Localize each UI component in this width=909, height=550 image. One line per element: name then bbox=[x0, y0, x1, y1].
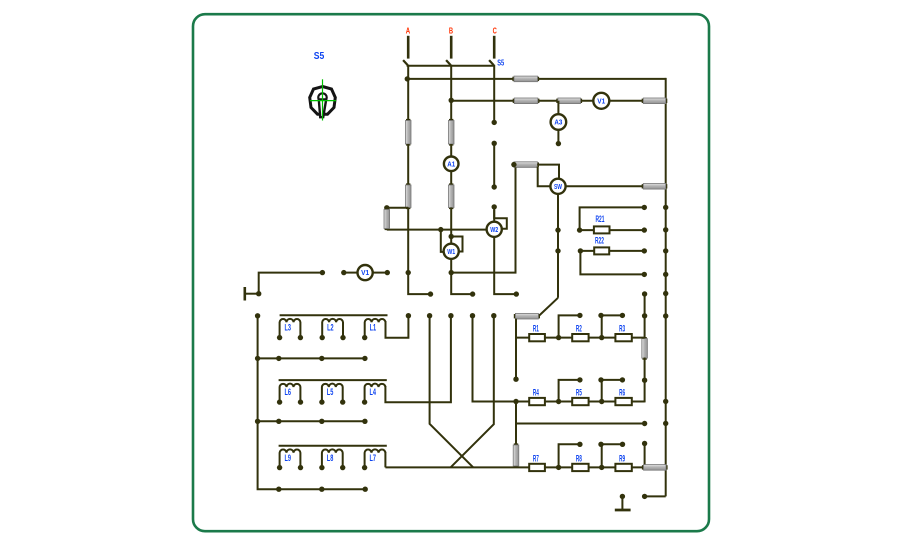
svg-text:R22: R22 bbox=[595, 236, 604, 246]
wire phase B column below A1 bbox=[450, 170, 452, 186]
wire R21 row bbox=[580, 229, 645, 231]
svg-text:L2: L2 bbox=[327, 322, 334, 332]
node W1 left hook bbox=[438, 227, 443, 232]
wire phase C column upper bbox=[493, 65, 495, 123]
node L3 left bbox=[277, 335, 282, 340]
svg-text:R6: R6 bbox=[619, 388, 625, 398]
node bus row1 a bbox=[276, 356, 281, 361]
wire neutral bus row1 bbox=[258, 357, 365, 359]
svg-text:L6: L6 bbox=[285, 387, 292, 397]
svg-text:L4: L4 bbox=[370, 387, 377, 397]
ammeter A1 on phase B bbox=[444, 157, 459, 172]
fuse inner bus R1-R4 bbox=[642, 337, 648, 360]
wire SW feed fuse to SW top bbox=[537, 165, 559, 180]
svg-text:L8: L8 bbox=[327, 453, 334, 463]
switch S5 blade phase C bbox=[489, 60, 494, 65]
node on phase B column y=272.6 bbox=[449, 270, 454, 275]
node outer bus y=274.4 bbox=[663, 272, 668, 277]
fuse phase B column 1 bbox=[448, 119, 454, 146]
phase B input stub bbox=[450, 36, 453, 59]
ammeter A3 bbox=[551, 114, 567, 130]
node phase C segment bottom bbox=[492, 184, 497, 189]
node outer bus y=207.4 bbox=[663, 205, 668, 210]
node L8 left bbox=[319, 465, 324, 470]
node bus row1 b bbox=[319, 356, 324, 361]
core line inductor row 2 bbox=[279, 379, 387, 381]
node R1 jumper 2 left bbox=[598, 313, 603, 318]
node L9 right bbox=[298, 465, 303, 470]
node outer bus y=293.5 bbox=[663, 291, 668, 296]
node outer bus y=316.0 bbox=[663, 313, 668, 318]
node R4 jumper 2 right bbox=[620, 377, 625, 382]
svg-text:R4: R4 bbox=[533, 388, 539, 398]
wire SW bottom column bbox=[557, 194, 559, 298]
node R1-R2 bbox=[556, 335, 561, 340]
wire R1 row jumper 1 bbox=[559, 315, 580, 337]
node R21 hook end bbox=[642, 205, 647, 210]
inductor L3 bbox=[280, 319, 301, 338]
wire below A3 bbox=[557, 130, 559, 144]
svg-text:R8: R8 bbox=[576, 453, 582, 463]
fuse bus2 second bbox=[556, 98, 582, 104]
fuse bus1 bbox=[512, 76, 539, 82]
wire R7 row jumper 2 horizontal bbox=[601, 443, 623, 445]
node small fuse top bbox=[384, 205, 389, 210]
svg-text:S5: S5 bbox=[497, 57, 504, 67]
resistor R2 bbox=[572, 334, 588, 341]
node R7 jumper 2 left bbox=[598, 442, 603, 447]
resistor R21 bbox=[594, 226, 610, 233]
wire R7 row bbox=[385, 466, 644, 468]
node left vertical bus1 bbox=[255, 356, 260, 361]
wire right outer bus vertical bbox=[665, 78, 667, 497]
node inner bus y=315.8 bbox=[642, 313, 647, 318]
node on phase A column y=272.6 bbox=[406, 270, 411, 275]
fuse small vertical left of A bbox=[384, 208, 390, 230]
svg-text:B: B bbox=[449, 26, 453, 36]
node W1 right hook tap bbox=[449, 234, 454, 239]
wire W1 row horizontal y=229.6 bbox=[387, 229, 487, 231]
svg-text:SW: SW bbox=[554, 184, 562, 191]
wire R4 row to R7 row vertical bbox=[515, 402, 517, 447]
node R22 right bbox=[642, 248, 647, 253]
wire left load vertical bbox=[258, 316, 366, 489]
svg-text:R5: R5 bbox=[576, 388, 582, 398]
voltmeter V1 left bbox=[358, 265, 373, 280]
node L6 right bbox=[298, 399, 303, 404]
wire column 5 diagonal to L7 row bbox=[451, 316, 494, 468]
fuse phase B column 2 bbox=[448, 183, 454, 209]
node R1 jumper 1 end bbox=[577, 313, 582, 318]
wire R22 lower hook bbox=[580, 251, 644, 275]
node left wire end bbox=[320, 270, 325, 275]
node outer bus y=250.9 bbox=[663, 248, 668, 253]
node outer bus bottom stub end bbox=[642, 494, 647, 499]
node R22 lower hook end bbox=[642, 272, 647, 277]
inductor L8 bbox=[322, 449, 343, 467]
svg-text:C: C bbox=[493, 26, 497, 36]
node load column x=408.4 bbox=[406, 313, 411, 318]
inductor L1 bbox=[365, 319, 386, 338]
fuse phase A column 1 bbox=[405, 119, 411, 146]
svg-text:L1: L1 bbox=[370, 322, 377, 332]
fuse load phase C branch bbox=[514, 313, 540, 319]
wire R4 row jumper 2 vertical bbox=[601, 380, 603, 402]
svg-text:V1: V1 bbox=[597, 98, 605, 105]
inductor L2 bbox=[322, 319, 343, 338]
resistor R4 bbox=[529, 398, 545, 405]
wire left ground to y=272.6 bbox=[259, 273, 323, 294]
svg-text:L3: L3 bbox=[285, 322, 292, 332]
switch S5 gang bar bbox=[407, 65, 495, 67]
ground left bbox=[245, 287, 259, 301]
wire SW voltage loop bbox=[538, 167, 552, 187]
wattmeter W1 bbox=[444, 244, 459, 259]
node SW column R22 level bbox=[555, 248, 560, 253]
border frame bbox=[193, 14, 709, 531]
node SW feed fuse left bbox=[511, 162, 516, 167]
resistor R1 bbox=[529, 334, 545, 341]
wire R7 row jumper 2 vertical bbox=[601, 444, 603, 467]
node bus row2 b bbox=[319, 419, 324, 424]
fuse phase A column 2 bbox=[405, 183, 411, 209]
resistor R8 bbox=[572, 464, 588, 471]
wire L7 right leg to R7 row line bbox=[384, 452, 386, 468]
fuse R7 row right bbox=[642, 465, 668, 471]
node L9 left bbox=[277, 465, 282, 470]
node phase A output bbox=[428, 291, 433, 296]
node R4-R5 bbox=[556, 399, 561, 404]
inductor L6 bbox=[280, 384, 301, 403]
node phase C at wattmeter W2 bbox=[492, 204, 497, 209]
node R4 jumper 2 left bbox=[598, 377, 603, 382]
wire W1 right hook bbox=[451, 237, 462, 252]
svg-text:W2: W2 bbox=[490, 227, 498, 234]
node phase B output bbox=[470, 291, 475, 296]
node below A3 bbox=[556, 141, 561, 146]
wire phase C column middle segment bbox=[493, 143, 495, 187]
toggle switch S5 icon bbox=[310, 87, 336, 118]
wire column 2 diagonal to R7 row bbox=[430, 316, 473, 468]
wire R4 row jumper 2 horizontal bbox=[601, 379, 623, 381]
node inner bus y=380.2 bbox=[642, 378, 647, 383]
node SW column R21 level bbox=[555, 227, 560, 232]
inductor L5 bbox=[322, 384, 343, 403]
svg-text:R1: R1 bbox=[533, 324, 539, 334]
svg-text:A1: A1 bbox=[447, 161, 455, 168]
phase C input stub bbox=[493, 36, 496, 59]
phase A input stub bbox=[407, 36, 410, 59]
node load column x=429.6 bbox=[427, 313, 432, 318]
node inner bus y=443.5 bbox=[642, 441, 647, 446]
node left vertical bus2 bbox=[255, 419, 260, 424]
node phase C segment top bbox=[492, 141, 497, 146]
wire phase A column middle bbox=[407, 144, 409, 186]
wire W1 left hook bbox=[441, 230, 445, 252]
node L1 left bbox=[362, 335, 367, 340]
node R22 left bbox=[578, 248, 583, 253]
wire into V1 left bbox=[344, 272, 358, 274]
node bus row3 end bbox=[363, 487, 368, 492]
wire phase B column to ammeter A1 bbox=[450, 144, 452, 157]
node L8 right bbox=[340, 465, 345, 470]
node L2 left bbox=[320, 335, 325, 340]
wire outer bus bottom stub bbox=[645, 495, 666, 497]
node R21 right bbox=[642, 227, 647, 232]
fuse SW feed bbox=[512, 162, 539, 168]
core line inductor row 1 bbox=[280, 314, 388, 316]
resistor R22 bbox=[594, 247, 609, 254]
wire phase B column below W1 with elbow bbox=[451, 258, 472, 294]
node L5 right bbox=[340, 399, 345, 404]
node load column x=472.5 bbox=[470, 313, 475, 318]
wire W2 right hook bbox=[494, 210, 507, 229]
node bus row2 a bbox=[276, 419, 281, 424]
inductor L9 bbox=[280, 449, 301, 467]
node voltmeter V1 left terminal bbox=[341, 270, 346, 275]
node inner bus top bbox=[642, 291, 647, 296]
wire SW column diagonal to load fuse bbox=[539, 298, 558, 316]
wire R1 row bbox=[516, 337, 645, 339]
wire L1 right leg hook to column 1 bbox=[386, 316, 409, 338]
wire R7 row jumper 1 bbox=[559, 444, 580, 467]
svg-text:S5: S5 bbox=[314, 51, 325, 62]
svg-text:L9: L9 bbox=[285, 453, 292, 463]
node outer bus y=423.4 bbox=[663, 421, 668, 426]
node bus2 at phase B bbox=[449, 98, 454, 103]
resistor R3 bbox=[615, 334, 631, 341]
node R7 jumper 1 end bbox=[577, 442, 582, 447]
node R8-R9 bbox=[599, 465, 604, 470]
node bus row3 b bbox=[319, 487, 324, 492]
node left ground bbox=[256, 291, 261, 296]
wire L4 right leg hook to column 3 bbox=[385, 316, 451, 403]
node phase C output bbox=[514, 291, 519, 296]
wire inner bus fuse to R4 row bbox=[644, 358, 646, 403]
wire R4 row bbox=[473, 401, 645, 403]
node R7 jumper 2 right bbox=[620, 442, 625, 447]
node outer bus y=401.4 bbox=[663, 399, 668, 404]
node R5-R6 bbox=[599, 399, 604, 404]
node R7-R8 bbox=[556, 465, 561, 470]
wire phase A column upper bbox=[407, 65, 409, 122]
resistor R9 bbox=[615, 464, 631, 471]
wire stub phase A to small fuse bbox=[387, 207, 408, 209]
wire inner bus upper segment bbox=[644, 294, 646, 338]
node L5 left bbox=[319, 399, 324, 404]
node L2 right bbox=[340, 335, 345, 340]
wire phase C below W2 with elbow bbox=[494, 236, 516, 294]
toggle switch crosshair bbox=[310, 79, 336, 120]
node end below R1 row bbox=[513, 377, 518, 382]
fuse bus2 first bbox=[513, 98, 540, 104]
inductor L4 bbox=[365, 384, 386, 403]
wire R1 row jumper 2 horizontal bbox=[601, 314, 623, 316]
wire column 4 to R4 row bbox=[473, 316, 481, 402]
wire out of V1 left bbox=[373, 272, 388, 274]
svg-text:R7: R7 bbox=[533, 453, 539, 463]
svg-text:L5: L5 bbox=[327, 387, 334, 397]
node V1 right terminal bbox=[385, 270, 390, 275]
switch S5 blade phase A bbox=[403, 60, 408, 65]
svg-text:V1: V1 bbox=[361, 270, 369, 277]
node bus row3 a bbox=[276, 487, 281, 492]
wattmeter SW bbox=[550, 179, 565, 194]
node R21 left bbox=[577, 227, 582, 232]
node bus row1 end bbox=[362, 356, 367, 361]
wire ammeter A3 branch bbox=[557, 101, 559, 115]
wire phase A column lower with elbow bbox=[408, 208, 430, 295]
node L3 right bbox=[298, 335, 303, 340]
fuse above R7 row bbox=[513, 443, 519, 467]
wire R1 row jumper 2 vertical bbox=[601, 315, 603, 337]
node left load vertical top bbox=[255, 313, 260, 318]
node load column x=450.9 bbox=[448, 313, 453, 318]
node L6 left bbox=[277, 399, 282, 404]
node L7 left bbox=[362, 465, 367, 470]
wire SW right output bbox=[566, 185, 666, 187]
node R4 row left vertical bbox=[513, 399, 518, 404]
wire neutral bus row2 bbox=[258, 420, 365, 422]
node bus1 at phase A bbox=[405, 76, 410, 81]
resistor R5 bbox=[572, 398, 588, 405]
switch S5 blade phase B bbox=[446, 60, 451, 65]
wire bus2 phase B horizontal y=101 bbox=[451, 100, 666, 102]
inductor L7 bbox=[365, 449, 386, 467]
node phase C column break top bbox=[492, 120, 497, 125]
node outer bus y=229.8 bbox=[663, 227, 668, 232]
resistor R6 bbox=[615, 398, 631, 405]
svg-text:W1: W1 bbox=[447, 249, 455, 256]
svg-text:R2: R2 bbox=[576, 324, 582, 334]
wire phase B column to wattmeter W1 bbox=[450, 208, 452, 245]
svg-text:R9: R9 bbox=[619, 453, 625, 463]
core line inductor row 3 bbox=[279, 445, 387, 447]
node bus row2 end bbox=[362, 419, 367, 424]
resistor R7 bbox=[529, 464, 545, 471]
wire R4 row jumper 1 bbox=[559, 380, 580, 402]
wire inner bus R7 link bbox=[644, 444, 646, 468]
wire R22 row bbox=[580, 250, 644, 252]
node R2-R3 bbox=[599, 335, 604, 340]
wire load fuse left vertical to R1 row bbox=[515, 319, 517, 380]
node R4 jumper 1 end bbox=[577, 377, 582, 382]
wire R21 upper hook bbox=[580, 207, 645, 230]
wire bus1 phase A horizontal y=79 bbox=[406, 78, 665, 80]
wire SW feed vertical to y=272.6 bbox=[452, 167, 516, 272]
node bottom ground bbox=[620, 494, 625, 499]
svg-text:A3: A3 bbox=[554, 120, 562, 127]
wattmeter W2 bbox=[487, 222, 502, 237]
wire stub y=423.5 bbox=[516, 423, 645, 425]
svg-text:A: A bbox=[406, 26, 410, 36]
voltmeter V1 top bbox=[593, 93, 609, 109]
ground bottom right bbox=[615, 496, 631, 510]
node stub y=423.5 end bbox=[642, 421, 647, 426]
node R1 jumper 2 right bbox=[620, 313, 625, 318]
fuse SW right output bbox=[642, 184, 668, 190]
node L4 left bbox=[362, 399, 367, 404]
svg-text:R3: R3 bbox=[619, 324, 625, 334]
svg-text:R21: R21 bbox=[596, 214, 605, 224]
fuse bus2 third bbox=[642, 98, 668, 104]
wire phase B column upper bbox=[450, 65, 452, 122]
svg-text:L7: L7 bbox=[370, 453, 377, 463]
wire phase C into W2 bbox=[493, 207, 495, 223]
node load column x=493.8 bbox=[491, 313, 496, 318]
